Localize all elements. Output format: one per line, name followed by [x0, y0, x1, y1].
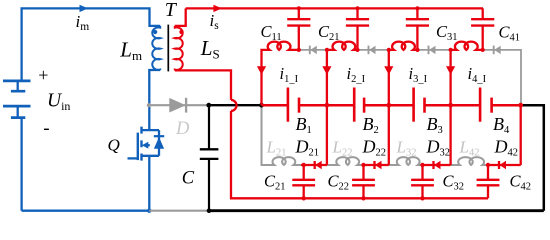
inductor L21 [262, 105, 302, 165]
node dots top rail [297, 6, 301, 10]
arrow i_3_I [384, 66, 393, 75]
capacitor C41 [482, 8, 484, 50]
diode D32 bar [432, 161, 434, 169]
node dots red rail [302, 196, 306, 200]
top gray diode 1 [310, 46, 317, 54]
arrow i_2_I [322, 66, 331, 75]
capacitor C11 [298, 8, 300, 50]
inductor Ls loops [175, 26, 183, 71]
diode D21 triangle [315, 161, 322, 169]
node dot primary winding [153, 30, 157, 34]
wire: blue bottom rail [22, 210, 150, 212]
svg-text:-: - [43, 118, 49, 139]
capacitor C22 bottom [362, 165, 364, 198]
diode D42 bar [498, 161, 500, 169]
wire: battery bottom lead [20, 118, 22, 211]
inductor Lm loops [152, 26, 160, 70]
diode chain line 3 [418, 49, 451, 51]
node dot secondary winding [179, 30, 183, 34]
battery B3 plates [412, 88, 415, 122]
wire: top red rail [186, 7, 483, 9]
capacitor C21 bottom [303, 165, 305, 198]
svg-text:C: C [182, 169, 195, 189]
capacitor C32 bottom [421, 165, 423, 198]
battery B2 plates [353, 88, 356, 122]
diode D21 bar [314, 161, 316, 169]
top gray diode 3 [429, 46, 436, 54]
node dots coil row [297, 48, 301, 52]
svg-text:+: + [38, 65, 48, 85]
wire: black right side [521, 105, 544, 211]
node dots bottom row [302, 163, 306, 167]
node dots bus [325, 103, 330, 108]
svg-text:T: T [165, 0, 178, 21]
top coil 4 [451, 42, 483, 106]
diode D42 triangle [500, 161, 507, 169]
node dot bottom rail [207, 208, 212, 213]
node dot drain junction [147, 103, 151, 107]
wire: black bus segment [207, 104, 262, 106]
MOSFET body diode [154, 137, 164, 149]
wire: secondary bottom with hop [175, 70, 231, 100]
inductor L42 [451, 157, 486, 165]
arrow i_m head [80, 5, 89, 12]
capacitor C42 bottom [487, 165, 489, 198]
diode D22 bar [373, 161, 375, 169]
transformer T core [167, 25, 169, 72]
top coil 3 [389, 42, 418, 106]
battery B4 plates [479, 88, 482, 122]
wire: black bottom rail [209, 209, 544, 212]
diode chain line 1 [299, 49, 327, 51]
battery cell stems [17, 81, 19, 118]
diode chain line 4 + right drop [483, 50, 521, 105]
top gray diode 2 [369, 46, 376, 54]
wire: drain to diode D [149, 104, 207, 106]
inductor L22 [327, 157, 362, 165]
capacitor C plates [200, 149, 219, 159]
wire: secondary riser [175, 8, 186, 26]
diode chain line 2 [358, 49, 389, 51]
battery U_in plates [3, 81, 31, 118]
top coil 2 [327, 42, 358, 106]
wire: MOSFET source down [148, 156, 150, 211]
wire: top rail from battery to transformer riser [22, 8, 161, 81]
node dot bus black-red [259, 103, 264, 108]
top gray diode 4 [494, 46, 501, 54]
arrow i_s head [213, 5, 222, 12]
node dot source/bottom rail [147, 209, 151, 213]
red bottom row horizontals [301, 164, 521, 166]
wire: primary bottom to MOSFET drain [149, 70, 160, 130]
diode D22 triangle [375, 161, 382, 169]
diode D32 triangle [434, 161, 441, 169]
diode D [169, 98, 186, 113]
capacitor C leads [208, 105, 210, 211]
wire: gray bottom rail segment [149, 210, 209, 212]
verticals bus to bottom row [327, 105, 521, 165]
MOSFET channel arrow [142, 142, 149, 149]
svg-text:Q: Q [108, 135, 120, 154]
svg-text:D: D [175, 119, 190, 139]
battery bus segments [262, 104, 521, 107]
arrow i_4_I [446, 66, 455, 75]
arrow i_1_I [257, 66, 266, 75]
node dot bus left [206, 103, 211, 108]
capacitor C21 top [356, 8, 358, 50]
inductor L32 [389, 157, 421, 165]
battery B1 plates [287, 88, 290, 122]
transistor Q MOSFET [142, 129, 160, 131]
top coil 1 [262, 42, 299, 106]
capacitor C31 [416, 8, 418, 50]
